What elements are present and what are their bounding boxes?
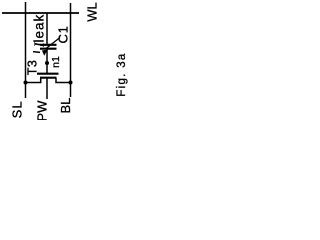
wire capacitor top lead xyxy=(46,13,48,44)
junction dot drain/BL xyxy=(69,81,73,85)
svg-text:n1: n1 xyxy=(50,56,62,68)
svg-text:T3: T3 xyxy=(26,60,40,76)
svg-text:Fig. 3a: Fig. 3a xyxy=(116,52,128,96)
transistor T3 xyxy=(37,74,59,78)
wire source stub xyxy=(26,78,41,83)
wire WL horizontal xyxy=(2,12,79,14)
svg-text:BL: BL xyxy=(58,98,73,114)
wire body to PW xyxy=(46,78,48,99)
current arrow Ileak xyxy=(33,38,60,56)
wire SL vertical xyxy=(25,2,27,98)
node n1 junction dot xyxy=(45,61,49,65)
svg-text:WL: WL xyxy=(85,2,100,21)
capacitor C1 xyxy=(40,45,57,49)
wire drain stub xyxy=(56,78,71,83)
wire capacitor bottom to gate xyxy=(46,49,48,74)
svg-text:SL: SL xyxy=(9,100,24,118)
svg-text:C1: C1 xyxy=(56,26,71,44)
junction dot source/SL xyxy=(24,81,28,85)
wire BL vertical xyxy=(70,3,72,97)
svg-text:Ileak: Ileak xyxy=(32,14,47,48)
svg-text:PW: PW xyxy=(35,100,50,120)
